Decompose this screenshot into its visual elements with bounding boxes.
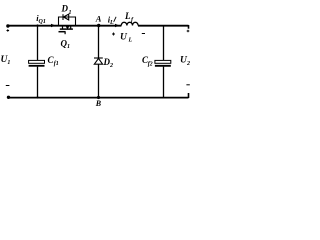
svg-text:1: 1 [69, 10, 72, 16]
diode D1 (antiparallel, cathode left) [63, 14, 69, 20]
capacitor Cf1 [29, 26, 45, 98]
current label iQ1 [36, 13, 46, 25]
inductor voltage UL label [120, 33, 133, 44]
capacitor Cf2 value label [142, 55, 153, 68]
transistor Q1 label [61, 39, 71, 51]
capacitor Cf1 value label [48, 55, 59, 67]
capacitor Cf2 [155, 26, 171, 98]
node input - terminal dot [7, 96, 10, 99]
inductor Lf coil [121, 22, 138, 25]
current label iL [108, 15, 116, 27]
current arrow iL [115, 24, 119, 28]
node B junction dot [97, 96, 100, 99]
input minus mark [6, 85, 10, 87]
diode D1 label [61, 4, 72, 16]
svg-text:L: L [128, 38, 133, 44]
svg-text:L: L [109, 20, 114, 26]
inductor Lf label [124, 11, 134, 24]
svg-text:L: L [124, 11, 131, 21]
svg-text:D: D [61, 4, 69, 14]
node junction dot Cf1 top [36, 24, 38, 26]
load U2 label [180, 56, 190, 68]
wire right bottom stub [188, 93, 190, 98]
svg-text:1: 1 [67, 44, 70, 50]
inductor voltage plus mark [112, 33, 115, 36]
svg-text:f1: f1 [54, 61, 59, 67]
wire top rail left [8, 25, 121, 27]
svg-text:f2: f2 [148, 62, 153, 68]
inductor voltage minus mark [142, 33, 145, 35]
node input + terminal dot [6, 24, 9, 27]
svg-text:A: A [95, 14, 102, 24]
svg-text:B: B [95, 99, 102, 108]
input plus mark [7, 29, 10, 32]
svg-text:U: U [120, 33, 128, 43]
output minus mark [186, 84, 189, 86]
svg-text:2: 2 [186, 61, 190, 67]
voltage source U1 label [1, 55, 11, 66]
output plus mark [187, 30, 190, 33]
wire top rail right [138, 25, 189, 27]
svg-text:1: 1 [7, 60, 10, 66]
svg-text:2: 2 [109, 63, 113, 69]
node A junction dot [97, 24, 100, 27]
wire right top stub [188, 25, 190, 29]
transistor Q1 switch loop risers [59, 17, 76, 26]
node junction dot Cf1 bottom [36, 96, 38, 98]
current arrow iQ1 [51, 24, 56, 28]
diode D2 (freewheel, vertical) [94, 26, 103, 98]
svg-text:Q1: Q1 [39, 19, 46, 25]
wire bottom rail [9, 97, 189, 99]
diode D2 label [103, 57, 114, 69]
transistor Q1 body (gate structure below rail) [59, 26, 73, 34]
